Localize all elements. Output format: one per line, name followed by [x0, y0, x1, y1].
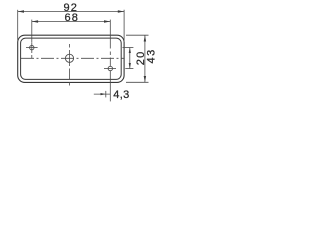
arrowhead 20 top: [129, 48, 131, 54]
arrowhead 4,3: [101, 93, 106, 95]
mounting hole right: [108, 66, 112, 70]
extension line 20 bottom: [125, 68, 133, 70]
svg-text:4,3: 4,3: [113, 89, 130, 101]
hole right crosshair: [104, 68, 116, 70]
arrowhead 20 bottom: [129, 63, 131, 69]
arrowhead 43 top: [144, 35, 146, 41]
dimension line 4,3: [94, 93, 111, 95]
dimension line 43: [144, 35, 146, 82]
extension line 43 bottom: [126, 81, 149, 83]
extension line 20 top: [123, 47, 134, 49]
lamp outer outline: [18, 35, 124, 82]
dimension line 92: [18, 11, 124, 13]
dimension line 20: [129, 48, 131, 69]
arrowhead 43 bottom: [144, 76, 146, 82]
horizontal centerline: [21, 57, 125, 59]
vertical centerline: [69, 44, 71, 86]
lamp inner outline: [21, 38, 122, 79]
extension line 4,3 left stub: [105, 91, 107, 98]
lens center circle: [65, 54, 73, 62]
extension line 92 right: [123, 10, 125, 42]
dimension line 68: [32, 21, 111, 23]
arrowhead 92 left: [18, 10, 24, 12]
arrowhead 68 left: [32, 20, 38, 22]
extension line 92 left: [17, 10, 19, 40]
svg-text:68: 68: [64, 12, 79, 24]
extension line 43 top: [126, 34, 149, 36]
arrowhead 68 right: [104, 20, 110, 22]
svg-text:43: 43: [146, 48, 158, 63]
mounting hole left: [30, 45, 34, 49]
arrowhead 92 right: [118, 10, 124, 12]
svg-text:20: 20: [135, 51, 147, 66]
extension line 68 right / hole axis: [109, 20, 111, 49]
extension line 68 left / hole axis: [31, 20, 33, 42]
hole left crosshair: [26, 47, 38, 49]
